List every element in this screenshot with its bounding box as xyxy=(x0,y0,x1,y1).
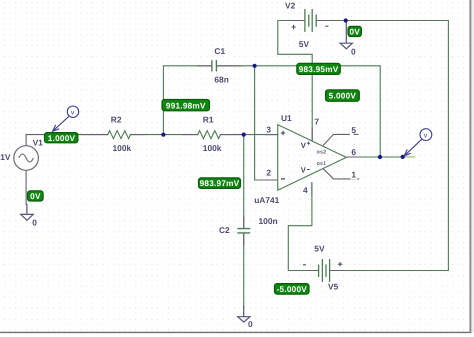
svg-text:2: 2 xyxy=(266,168,271,178)
wire node B drop to C2 xyxy=(243,135,245,229)
wire R1 to node B xyxy=(220,134,243,136)
value box 0V (V1) xyxy=(28,191,44,201)
junction feedback tee xyxy=(253,64,257,68)
svg-text:U1: U1 xyxy=(281,113,292,123)
value box 0V (top right) xyxy=(348,26,361,36)
svg-text:R2: R2 xyxy=(111,115,122,125)
wire V1 to R2 xyxy=(44,134,108,136)
resistor R1 xyxy=(198,131,221,139)
capacitor C2 leads xyxy=(243,217,245,246)
capacitor C2 xyxy=(238,229,250,233)
wire pin7 riser xyxy=(311,54,313,140)
op-amp U1 triangle xyxy=(278,125,347,191)
junction output feedback xyxy=(378,155,382,159)
svg-text:100n: 100n xyxy=(259,216,278,226)
svg-text:R1: R1 xyxy=(203,115,214,125)
battery V5 minus mark xyxy=(303,264,306,266)
svg-text:0: 0 xyxy=(248,319,253,329)
svg-text:6: 6 xyxy=(351,147,356,157)
battery V2 plates xyxy=(305,10,312,32)
svg-text:3: 3 xyxy=(266,124,271,134)
svg-text:5V: 5V xyxy=(314,244,325,254)
op-amp minus input mark xyxy=(281,178,285,180)
probe VM2 arrow xyxy=(404,129,432,156)
op-amp plus input mark xyxy=(281,131,285,135)
source V1 sine xyxy=(19,154,34,162)
op-amp pin3 lead xyxy=(266,134,278,136)
wire V2 plus to top junction and corner xyxy=(316,20,448,22)
resistor R1 leads xyxy=(183,134,243,136)
ground (under C2) xyxy=(238,306,250,322)
svg-text:V2: V2 xyxy=(285,1,296,11)
value box 983.95mV xyxy=(297,63,341,74)
wire V2 minus loop xyxy=(278,21,312,55)
wire node A to C1 xyxy=(163,65,212,67)
wire right supply riser xyxy=(447,21,449,271)
wire op-amp output xyxy=(346,156,402,158)
resistor R2 leads xyxy=(81,134,145,136)
svg-text:V1: V1 xyxy=(33,137,44,147)
op-amp pin6 lead xyxy=(346,156,358,158)
source V1 circle xyxy=(14,146,39,171)
pin 5 xyxy=(350,126,354,135)
battery V5 leads xyxy=(306,270,343,272)
svg-text:V5: V5 xyxy=(328,282,339,292)
svg-text:7: 7 xyxy=(314,117,319,127)
wire feedback drop xyxy=(379,66,381,157)
svg-text:0: 0 xyxy=(32,217,37,227)
battery V5 plus mark xyxy=(338,262,342,266)
svg-text:100k: 100k xyxy=(203,143,222,153)
junction output probe xyxy=(401,155,405,159)
svg-text:C2: C2 xyxy=(219,225,230,235)
svg-text:991.98mV: 991.98mV xyxy=(166,101,206,110)
junction node B xyxy=(242,133,246,137)
window border bottom xyxy=(0,331,473,333)
value box 1.000V xyxy=(45,133,78,143)
svg-text:1.000V: 1.000V xyxy=(48,134,76,143)
ground (top right, V2 minus) xyxy=(340,22,352,49)
op-amp pin7 lead xyxy=(311,129,313,141)
probe VM1 arrow xyxy=(53,106,79,131)
value box 991.98mV xyxy=(162,100,210,111)
svg-text:5: 5 xyxy=(351,125,356,135)
wire pin4 to V5 xyxy=(288,183,318,271)
svg-text:68n: 68n xyxy=(214,74,228,84)
battery V2 plus mark xyxy=(292,25,296,29)
svg-text:v: v xyxy=(424,132,428,139)
svg-text:983.97mV: 983.97mV xyxy=(200,179,240,188)
svg-text:os2: os2 xyxy=(317,149,327,155)
ground (under V1) xyxy=(21,204,33,220)
value box 5.000V xyxy=(326,90,360,102)
op-amp pin1 stub xyxy=(323,169,359,179)
capacitor C1 xyxy=(212,61,217,71)
svg-text:uA741: uA741 xyxy=(254,195,279,205)
wire V5 plus to right riser xyxy=(330,270,449,272)
svg-text:983.95mV: 983.95mV xyxy=(299,65,339,74)
pin 1 xyxy=(351,170,358,180)
capacitor C1 leads xyxy=(198,65,242,67)
svg-text:v: v xyxy=(71,109,75,116)
wire C2 to ground xyxy=(243,233,245,307)
svg-text:0V: 0V xyxy=(30,192,41,201)
svg-text:C1: C1 xyxy=(214,46,225,56)
battery V5 plates xyxy=(319,265,326,277)
wire R2 to node A xyxy=(131,134,164,136)
wire pin2 branch xyxy=(255,66,278,180)
svg-text:0V: 0V xyxy=(349,28,360,37)
junction node A xyxy=(161,133,165,137)
op-amp pin2 lead xyxy=(266,179,278,181)
wire node A riser xyxy=(162,66,164,135)
op-amp pin5 stub xyxy=(323,134,358,145)
resistor R2 xyxy=(108,131,131,139)
svg-text:4: 4 xyxy=(303,185,308,195)
svg-text:os1: os1 xyxy=(317,161,327,167)
svg-text:5V: 5V xyxy=(299,39,310,49)
window border right xyxy=(471,0,474,333)
value box 983.97mV xyxy=(199,178,241,189)
svg-text:0: 0 xyxy=(351,47,356,57)
source V1 bottom lead xyxy=(25,170,27,204)
svg-text:-5.000V: -5.000V xyxy=(277,285,308,294)
svg-text:1V: 1V xyxy=(0,152,11,162)
svg-text:100k: 100k xyxy=(113,143,132,153)
op-amp pin4 lead xyxy=(311,183,313,195)
wire node B to op-amp pin3 xyxy=(244,134,278,136)
source V1 top lead xyxy=(26,135,44,146)
svg-text:5.000V: 5.000V xyxy=(329,92,357,101)
value box -5.000V xyxy=(275,284,310,295)
wire node A to R1 xyxy=(163,134,197,136)
wire C1 to feedback corner xyxy=(216,65,380,67)
junction V2 plus xyxy=(344,18,348,22)
battery V2 minus mark xyxy=(325,25,328,27)
wire output light extension xyxy=(403,156,416,158)
battery V2 leads xyxy=(292,20,330,22)
svg-text:1: 1 xyxy=(351,170,356,180)
